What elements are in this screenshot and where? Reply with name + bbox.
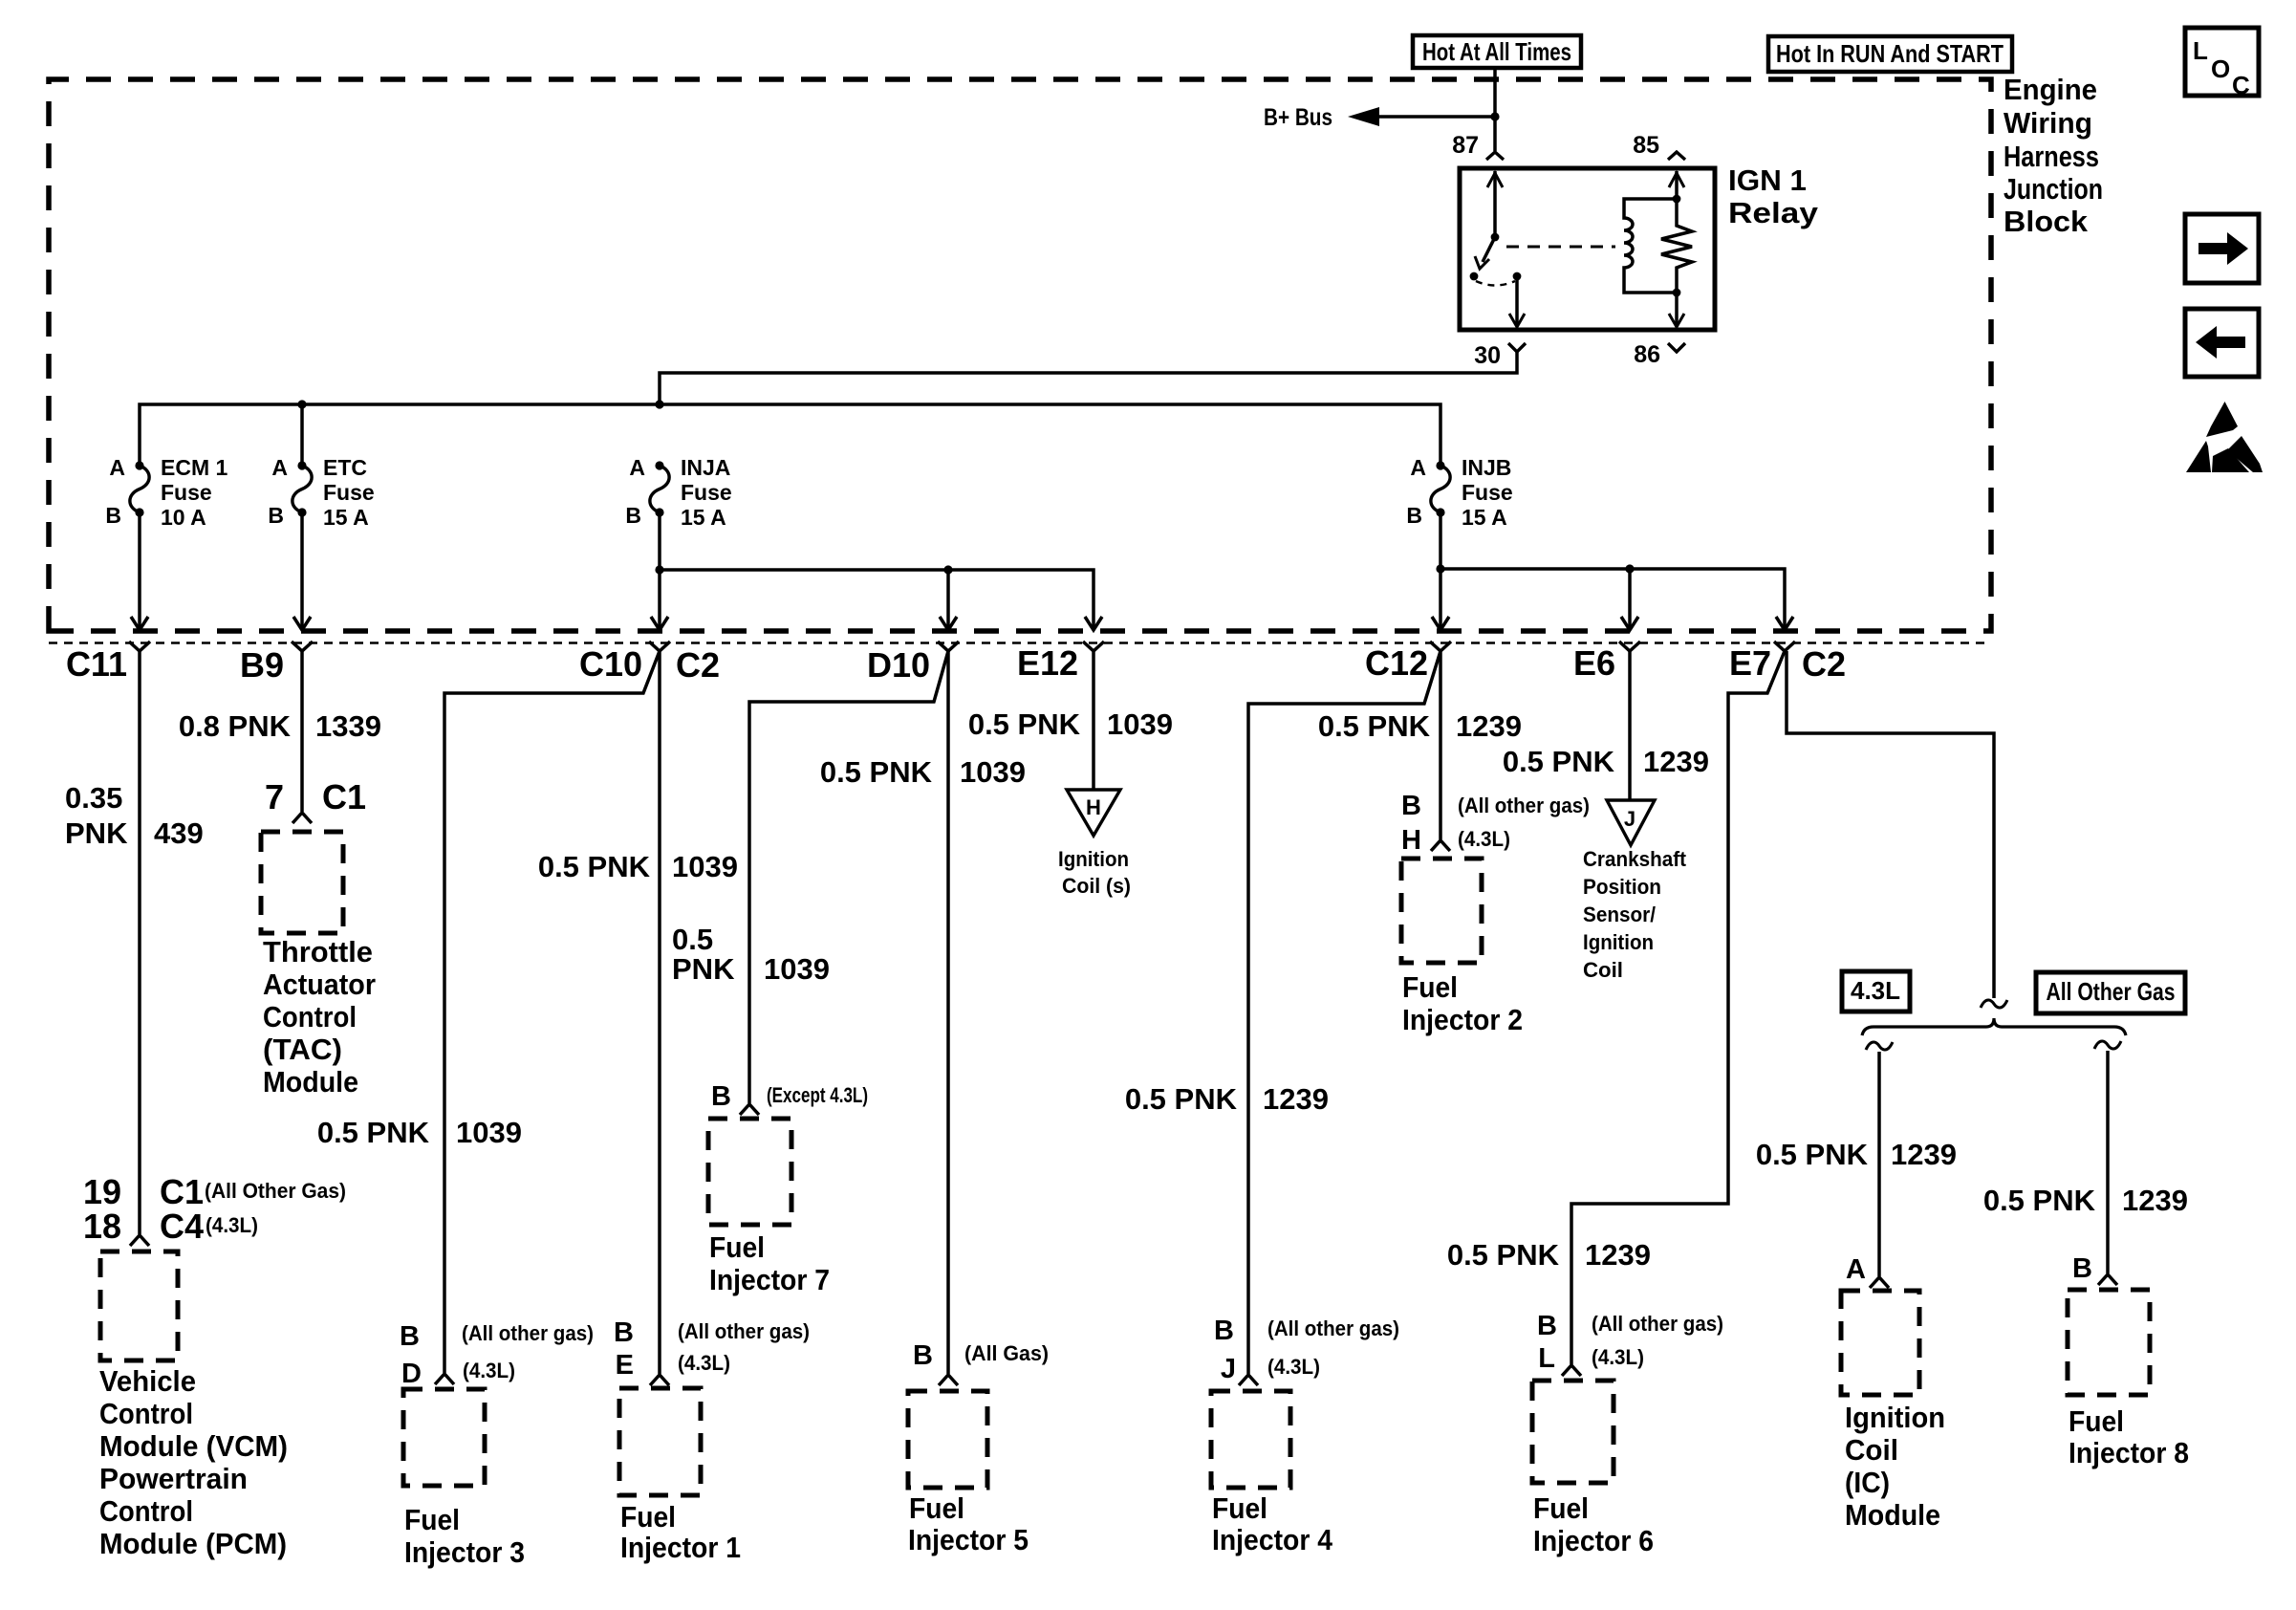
pin 87: [1452, 132, 1504, 160]
svg-text:Hot In RUN And START: Hot In RUN And START: [1776, 39, 2004, 68]
pin 86: [1634, 341, 1685, 368]
svg-text:0.5 PNK: 0.5 PNK: [1125, 1082, 1238, 1116]
wire 1239: C12 to Fuel Injector 2: [1318, 651, 1522, 839]
svg-text:1039: 1039: [960, 755, 1026, 789]
svg-text:J: J: [1221, 1354, 1236, 1384]
connector C12: [1365, 642, 1451, 683]
node: D10 tap junction: [943, 565, 952, 574]
svg-text:Throttle: Throttle: [263, 935, 373, 968]
svg-text:0.35: 0.35: [65, 781, 122, 815]
svg-text:C1: C1: [160, 1172, 204, 1211]
svg-text:1039: 1039: [764, 952, 830, 986]
svg-text:0.5: 0.5: [672, 923, 713, 956]
svg-text:30: 30: [1474, 342, 1501, 369]
relay switch movable arm: [1475, 237, 1495, 269]
svg-text:Injector 7: Injector 7: [709, 1263, 830, 1296]
svg-text:Injector 1: Injector 1: [620, 1531, 741, 1564]
relay coil L1: [1624, 199, 1677, 293]
svg-text:B9: B9: [240, 645, 284, 685]
svg-text:L: L: [1538, 1343, 1555, 1374]
svg-text:L: L: [2193, 36, 2208, 65]
svg-text:(4.3L): (4.3L): [1592, 1345, 1644, 1369]
wire: drop to E12 arrowhead: [1085, 617, 1102, 630]
svg-text:B: B: [105, 503, 121, 528]
node: bus junction at INJA fuse: [655, 400, 663, 408]
svg-text:A: A: [1846, 1254, 1866, 1285]
module U2: Vehicle Control Module (VCM) / Powertrain Control Module (PCM): [83, 1172, 346, 1560]
svg-text:Hot At All Times: Hot At All Times: [1422, 37, 1571, 66]
svg-text:(4.3L): (4.3L): [1267, 1355, 1320, 1379]
svg-text:B: B: [913, 1340, 933, 1371]
svg-text:E12: E12: [1017, 643, 1078, 683]
svg-text:1239: 1239: [1263, 1082, 1329, 1116]
brace: engine variant split: [1862, 1018, 2126, 1035]
icon: ESD warning triangle: [2186, 402, 2263, 472]
label: Engine Wiring Harness Junction Block: [2004, 73, 2103, 238]
svg-text:1239: 1239: [1891, 1138, 1957, 1171]
icon: LOC reference box: [2185, 28, 2259, 99]
svg-text:(All Other Gas): (All Other Gas): [205, 1179, 346, 1203]
svg-text:Injector 5: Injector 5: [908, 1523, 1029, 1556]
triangle H: Ignition Coil (s) feed: [1058, 790, 1131, 898]
wire: ETC fuse feed drop: [300, 404, 304, 466]
node: coil/resistor bottom junction: [1669, 289, 1684, 327]
wire 1039: D10 to Fuel Injector 5: [820, 651, 1026, 1374]
relay switch contacts: [1470, 272, 1522, 286]
svg-text:Position: Position: [1583, 875, 1661, 899]
svg-text:19: 19: [83, 1172, 121, 1211]
svg-text:C4: C4: [160, 1207, 204, 1246]
svg-text:Control: Control: [263, 1000, 357, 1033]
svg-text:E6: E6: [1573, 643, 1615, 683]
svg-text:PNK: PNK: [65, 816, 128, 850]
svg-text:1039: 1039: [456, 1116, 522, 1149]
svg-text:15 A: 15 A: [323, 505, 369, 530]
relay coil branch leg (pin 85 internal): [1669, 171, 1684, 203]
svg-text:Fuel: Fuel: [1402, 970, 1458, 1004]
svg-text:(TAC): (TAC): [263, 1033, 342, 1066]
svg-text:Fuel: Fuel: [1212, 1491, 1267, 1525]
svg-text:B: B: [614, 1317, 634, 1348]
svg-text:0.5 PNK: 0.5 PNK: [1318, 709, 1431, 743]
svg-text:C2: C2: [676, 645, 720, 685]
wire 439: C11 to VCM: [65, 651, 204, 1234]
wire: ECM 1 fuse output to C11: [131, 512, 148, 630]
connector E7 / C2: [1729, 642, 1846, 684]
junction block dashed border (Engine Wiring Harness Junction Block): [49, 79, 1991, 631]
svg-text:18: 18: [83, 1207, 121, 1246]
connector C10 / C2: [579, 642, 720, 685]
connector C11: [66, 642, 150, 684]
svg-text:(4.3L): (4.3L): [206, 1213, 258, 1237]
triangle J: Crankshaft Position Sensor / Ignition Coil feed: [1583, 800, 1687, 982]
node: bus junction at ETC fuse: [297, 400, 306, 408]
svg-text:(All other gas): (All other gas): [462, 1321, 594, 1345]
relay U1: IGN 1 Relay: [1460, 163, 1819, 330]
wire 1239: E7 branch to Fuel Injector 6: [1447, 651, 1785, 1364]
svg-text:85: 85: [1633, 132, 1659, 159]
wire 1239: C2 to engine variant split: [1787, 651, 1994, 998]
svg-text:C2: C2: [1802, 644, 1846, 684]
module U4: Ignition Coil (IC) Module: [1841, 1254, 1945, 1532]
svg-text:Control: Control: [99, 1494, 193, 1528]
svg-text:1339: 1339: [315, 709, 381, 743]
svg-text:C10: C10: [579, 644, 642, 684]
svg-text:Module (VCM): Module (VCM): [99, 1429, 288, 1463]
wire 1039: C10 to Fuel Injector 1: [538, 651, 738, 1374]
svg-text:(All other gas): (All other gas): [678, 1319, 810, 1343]
svg-text:B: B: [1537, 1311, 1557, 1341]
svg-text:Module (PCM): Module (PCM): [99, 1527, 287, 1560]
svg-text:B: B: [2072, 1253, 2092, 1284]
svg-text:Injector 2: Injector 2: [1402, 1003, 1523, 1036]
icon: arrow left box: [2185, 309, 2259, 377]
svg-text:All Other Gas: All Other Gas: [2047, 977, 2176, 1006]
svg-text:H: H: [1401, 825, 1421, 856]
svg-text:0.5 PNK: 0.5 PNK: [538, 850, 651, 883]
relay switch output leg (pin 30 internal): [1509, 276, 1525, 327]
svg-text:0.5 PNK: 0.5 PNK: [1756, 1138, 1869, 1171]
wire 1039: D10 branch to Fuel Injector 7: [672, 651, 948, 1103]
svg-text:A: A: [1410, 455, 1426, 480]
svg-text:Fuse: Fuse: [681, 480, 732, 505]
wire: drop to D10: [940, 570, 957, 630]
svg-text:B: B: [400, 1321, 420, 1352]
component: Fuel Injector 5: [908, 1340, 1049, 1556]
component: Fuel Injector 6: [1532, 1311, 1723, 1557]
svg-text:Coil (s): Coil (s): [1062, 874, 1131, 898]
connector E12: [1017, 642, 1104, 683]
svg-text:Relay: Relay: [1728, 196, 1819, 229]
svg-text:(4.3L): (4.3L): [678, 1351, 730, 1375]
svg-text:Sensor/: Sensor/: [1583, 903, 1656, 926]
svg-text:10 A: 10 A: [161, 505, 206, 530]
svg-text:Ignition: Ignition: [1058, 847, 1129, 871]
svg-text:Crankshaft: Crankshaft: [1583, 847, 1687, 871]
fuse F1: ECM 1 Fuse 10 A: [105, 455, 227, 530]
node: B+ Bus tap junction: [1490, 112, 1499, 120]
svg-text:(All other gas): (All other gas): [1458, 794, 1590, 817]
svg-text:E: E: [616, 1350, 634, 1381]
component: Fuel Injector 7: [708, 1081, 868, 1296]
svg-text:Fuel: Fuel: [620, 1500, 676, 1534]
svg-text:Fuel: Fuel: [404, 1503, 460, 1536]
svg-text:1239: 1239: [1456, 709, 1522, 743]
junction block inner thin dashed connector line: [49, 642, 1991, 644]
svg-text:(All other gas): (All other gas): [1592, 1312, 1723, 1336]
relay switch common leg (pin 87 internal): [1487, 171, 1503, 241]
label box: All Other Gas: [2036, 972, 2185, 1013]
svg-text:B: B: [268, 503, 284, 528]
svg-text:D: D: [401, 1359, 422, 1389]
break symbol at variant split wire end: [1981, 1000, 2007, 1008]
svg-text:Injector 8: Injector 8: [2069, 1436, 2189, 1469]
icon: arrow right box: [2185, 214, 2259, 283]
svg-text:Injector 4: Injector 4: [1212, 1523, 1333, 1556]
svg-text:(All other gas): (All other gas): [1267, 1316, 1399, 1340]
svg-text:IGN 1: IGN 1: [1728, 163, 1807, 197]
wire 1339: B9 to TAC module: [179, 651, 381, 812]
svg-text:Junction: Junction: [2004, 172, 2103, 206]
svg-text:Fuel: Fuel: [709, 1230, 765, 1264]
svg-text:1239: 1239: [2122, 1184, 2188, 1217]
svg-text:C12: C12: [1365, 643, 1428, 683]
svg-text:Block: Block: [2004, 205, 2089, 238]
wire: fuse supply bus: [140, 404, 1440, 466]
svg-text:A: A: [271, 455, 288, 480]
header box: Hot At All Times: [1413, 35, 1581, 68]
svg-text:0.5 PNK: 0.5 PNK: [820, 755, 933, 789]
wire: INJA branch to D10 and E12: [660, 570, 1094, 628]
svg-text:0.5 PNK: 0.5 PNK: [1983, 1184, 2096, 1217]
svg-text:0.5 PNK: 0.5 PNK: [317, 1116, 430, 1149]
connector E6: [1573, 642, 1640, 683]
svg-text:PNK: PNK: [672, 952, 735, 986]
svg-text:Powertrain: Powertrain: [99, 1462, 248, 1495]
svg-text:D10: D10: [867, 645, 930, 685]
wire: battery feed from Hot At All Times to relay pin 87: [1493, 68, 1497, 151]
svg-text:86: 86: [1634, 341, 1660, 368]
wire: drop to E7 arrowhead: [1776, 617, 1793, 630]
svg-text:(Except 4.3L): (Except 4.3L): [767, 1083, 868, 1107]
node: E6 tap junction: [1625, 564, 1634, 573]
wire: B+ Bus arrow: [1264, 104, 1495, 131]
svg-text:Fuse: Fuse: [161, 480, 212, 505]
module U3: Throttle Actuator Control (TAC) Module: [261, 777, 376, 1099]
svg-text:B: B: [1406, 503, 1422, 528]
svg-text:(4.3L): (4.3L): [463, 1359, 515, 1382]
pin 85: [1633, 132, 1685, 160]
wire 1239: E6 to crankshaft position sensor J: [1503, 651, 1709, 800]
svg-text:Module: Module: [1845, 1498, 1940, 1532]
wire 1039: E12 to ignition coil feed H: [968, 651, 1173, 790]
svg-text:0.5 PNK: 0.5 PNK: [1503, 745, 1615, 778]
svg-text:Actuator: Actuator: [263, 968, 376, 1001]
svg-text:Injector 3: Injector 3: [404, 1535, 525, 1569]
wire 1239: All Other Gas branch to Fuel Injector 8: [1983, 1041, 2188, 1273]
svg-text:ETC: ETC: [323, 455, 367, 480]
svg-text:Engine: Engine: [2004, 73, 2097, 106]
svg-text:Control: Control: [99, 1397, 193, 1430]
header box: Hot In RUN And START: [1768, 36, 2012, 72]
label box: 4.3L: [1842, 971, 1910, 1012]
fuse F3: INJA Fuse 15 A: [625, 455, 731, 530]
svg-text:Fuel: Fuel: [2069, 1404, 2124, 1438]
wire 1239: 4.3L branch to Ignition Coil (IC) Module: [1756, 1042, 1957, 1276]
svg-text:15 A: 15 A: [1462, 505, 1507, 530]
wire: INJA fuse output to C10: [651, 512, 668, 630]
svg-text:0.5 PNK: 0.5 PNK: [968, 707, 1081, 741]
svg-text:(All Gas): (All Gas): [964, 1341, 1049, 1365]
fuse F4: INJB Fuse 15 A: [1406, 455, 1512, 530]
svg-text:E7: E7: [1729, 643, 1771, 683]
svg-text:439: 439: [154, 816, 204, 850]
wire: ETC fuse output to B9: [293, 512, 311, 630]
svg-text:A: A: [629, 455, 645, 480]
component: Fuel Injector 3: [400, 1321, 594, 1569]
svg-text:J: J: [1624, 807, 1635, 831]
svg-text:C11: C11: [66, 644, 127, 684]
wire: relay pin 30 to fuse bus: [660, 352, 1517, 404]
svg-text:Fuse: Fuse: [323, 480, 375, 505]
svg-text:B+ Bus: B+ Bus: [1264, 104, 1332, 131]
svg-text:Ignition: Ignition: [1845, 1401, 1945, 1434]
svg-text:B: B: [625, 503, 641, 528]
svg-text:O: O: [2211, 54, 2230, 83]
svg-text:A: A: [109, 455, 125, 480]
svg-text:B: B: [1401, 791, 1421, 821]
component: Fuel Injector 4: [1211, 1316, 1399, 1556]
wire: drop to E6: [1621, 569, 1638, 630]
svg-text:Wiring: Wiring: [2004, 106, 2092, 140]
svg-text:1239: 1239: [1643, 745, 1709, 778]
svg-text:15 A: 15 A: [681, 505, 726, 530]
svg-text:ECM 1: ECM 1: [161, 455, 228, 480]
svg-text:B: B: [711, 1081, 731, 1112]
svg-text:Injector 6: Injector 6: [1533, 1524, 1654, 1557]
svg-text:Fuse: Fuse: [1462, 480, 1513, 505]
node: INJA output branch junction: [655, 565, 663, 574]
svg-text:B: B: [1214, 1316, 1234, 1346]
svg-text:Vehicle: Vehicle: [99, 1364, 196, 1398]
component: Fuel Injector 2: [1401, 791, 1590, 1036]
wire 1239: C12 branch to Fuel Injector 4: [1125, 651, 1440, 1374]
component: Fuel Injector 8: [2068, 1253, 2189, 1469]
svg-text:C: C: [2232, 71, 2250, 99]
wire: INJB branch to E6 and E7: [1440, 569, 1785, 628]
relay actuation dashed link: [1506, 246, 1615, 249]
svg-text:Harness: Harness: [2004, 140, 2099, 173]
svg-text:INJA: INJA: [681, 455, 730, 480]
svg-text:Fuel: Fuel: [1533, 1491, 1589, 1525]
connector B9: [240, 642, 313, 685]
svg-text:Module: Module: [263, 1065, 358, 1099]
node: INJB output branch junction: [1436, 564, 1444, 573]
wire: INJB fuse output to C12: [1432, 512, 1449, 630]
svg-text:4.3L: 4.3L: [1851, 976, 1900, 1005]
relay resistor R1: [1661, 199, 1692, 293]
wire 1039: C2 branch to Fuel Injector 3: [317, 651, 660, 1373]
svg-text:H: H: [1086, 795, 1101, 819]
svg-text:1239: 1239: [1585, 1238, 1651, 1272]
svg-text:INJB: INJB: [1462, 455, 1511, 480]
svg-text:0.5 PNK: 0.5 PNK: [1447, 1238, 1560, 1272]
svg-text:C1: C1: [322, 777, 366, 816]
fuse F2: ETC Fuse 15 A: [268, 455, 374, 530]
svg-text:(IC): (IC): [1845, 1466, 1890, 1499]
svg-text:Ignition: Ignition: [1583, 930, 1654, 954]
svg-text:7: 7: [265, 777, 284, 816]
connector D10: [867, 642, 959, 685]
svg-text:1039: 1039: [1107, 707, 1173, 741]
svg-text:87: 87: [1452, 132, 1479, 159]
svg-text:0.8 PNK: 0.8 PNK: [179, 709, 292, 743]
svg-text:Fuel: Fuel: [909, 1491, 964, 1525]
svg-text:(4.3L): (4.3L): [1458, 827, 1510, 851]
svg-text:Coil: Coil: [1583, 958, 1623, 982]
svg-text:1039: 1039: [672, 850, 738, 883]
pin 30: [1474, 342, 1526, 369]
component: Fuel Injector 1: [614, 1317, 810, 1564]
svg-text:Coil: Coil: [1845, 1433, 1898, 1467]
